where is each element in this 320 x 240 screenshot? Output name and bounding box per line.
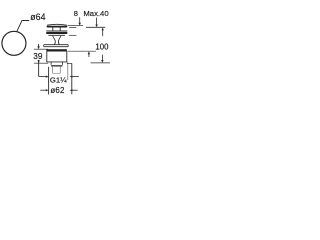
svg-text:ø64: ø64 xyxy=(30,12,45,22)
svg-text:Max.40: Max.40 xyxy=(83,9,108,18)
svg-text:ø62: ø62 xyxy=(50,86,64,95)
svg-text:G1¼: G1¼ xyxy=(50,75,67,84)
svg-text:8: 8 xyxy=(74,9,78,18)
svg-text:100: 100 xyxy=(95,42,109,51)
svg-text:39: 39 xyxy=(33,52,43,61)
